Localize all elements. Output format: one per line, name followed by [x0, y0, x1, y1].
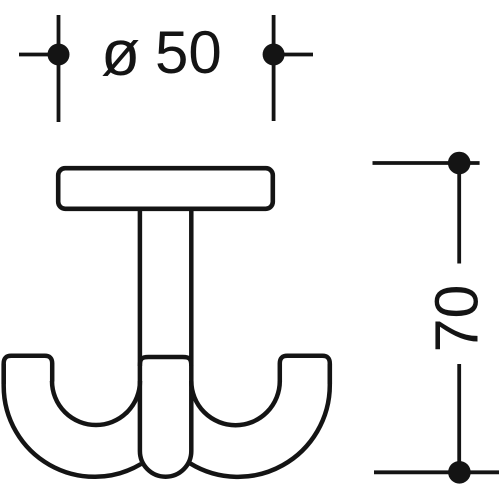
left hook inner arc [52, 381, 140, 425]
centre hook rounded bottom [140, 451, 191, 477]
dimension point right (ø50) [263, 15, 313, 121]
svg-text:70: 70 [423, 285, 491, 353]
stem right line [189, 210, 194, 451]
wire: horizontal extension line bottom-right [374, 470, 499, 474]
wire: vertical extension line left [57, 15, 61, 122]
node: filled dot bottom-right [448, 461, 471, 484]
left hook tip [4, 356, 53, 384]
right hook inner arc [191, 381, 279, 425]
node: filled dot top-right [448, 152, 471, 175]
dimension point left (ø50) [19, 15, 70, 122]
right hook tip [280, 356, 330, 384]
stem left line [138, 210, 143, 451]
left hook outer arc [4, 364, 141, 477]
node: filled dot right [263, 44, 285, 66]
wire: vertical dimension line upper [457, 163, 461, 264]
svg-text:50: 50 [155, 19, 222, 86]
wire: vertical dimension line lower [457, 364, 461, 472]
node: filled dot left [48, 44, 70, 66]
wire: horizontal tick left [19, 53, 59, 57]
svg-text:ø: ø [101, 17, 140, 89]
wire: horizontal tick right [274, 53, 313, 57]
right hook outer arc [190, 364, 330, 477]
ceiling plate [58, 168, 273, 209]
dimension point top (70) [373, 152, 480, 264]
wire: horizontal extension line top-right [373, 161, 480, 165]
centre hook top edge [140, 357, 191, 366]
wire: vertical extension line right [272, 15, 276, 121]
dimension point bottom (70) [374, 364, 499, 484]
